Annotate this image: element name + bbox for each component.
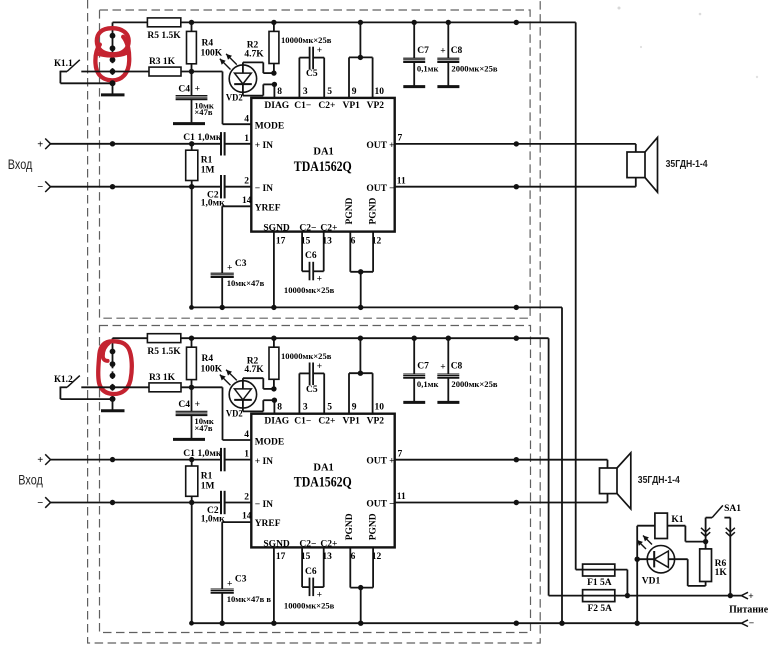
pin number 14 (ch2) (242, 512, 252, 522)
labels C6 (ch2) (284, 567, 335, 611)
svg-text:DA1: DA1 (313, 462, 333, 473)
svg-text:+: + (195, 84, 200, 94)
label C2 1,0мк (ch2) (201, 506, 225, 524)
svg-text:R4: R4 (202, 354, 214, 364)
svg-text:DIAG: DIAG (264, 417, 289, 427)
svg-text:К1.1: К1.1 (54, 59, 73, 69)
svg-text:PGND: PGND (368, 513, 378, 540)
svg-text:4: 4 (244, 430, 249, 440)
junction dot K1/SA1/R6 node (703, 539, 708, 544)
resistor R5 1.5K (ch2) (147, 334, 181, 357)
svg-text:Питание: Питание (729, 604, 769, 615)
switch SA1 (701, 504, 741, 596)
wire: ch1 +rail drop to fuse F1 (576, 22, 583, 569)
wire: VD2 cathode to DIAG pin 8 (ch2) (243, 400, 275, 411)
ground bar under C4 (ch2) (173, 438, 205, 441)
svg-text:− IN: − IN (255, 184, 273, 194)
junction dot R4/R3/C4 node (ch1) (189, 69, 194, 74)
svg-text:C4: C4 (178, 84, 190, 94)
wire: R1 down to signal-ground rail (ch1) (191, 187, 193, 308)
svg-text:100K: 100K (201, 49, 223, 59)
wire: K1 right lead to SA1/R6 node (667, 526, 705, 542)
svg-text:C1−: C1− (294, 417, 311, 427)
pin numbers 9 and 10 (ch2) (352, 403, 384, 413)
input label Вход (ch2) (18, 472, 43, 488)
svg-text:12: 12 (372, 236, 382, 246)
svg-text:+: + (317, 590, 322, 600)
svg-text:VD2: VD2 (226, 410, 243, 420)
svg-text:100K: 100K (201, 364, 223, 374)
svg-text:5: 5 (327, 87, 332, 97)
channel 2 dashed module box (100, 326, 531, 633)
svg-text:+: + (37, 139, 43, 150)
labels C6 (ch1) (284, 251, 335, 295)
fuse F2 5A (583, 590, 615, 614)
pin number 2 (ch1) (244, 177, 249, 187)
wire: R1 down to signal-ground rail (ch2) (191, 503, 193, 624)
svg-text:1,0мк: 1,0мк (198, 133, 222, 143)
svg-text:+: + (440, 362, 445, 372)
relay contact K1.1 switch (60, 60, 149, 84)
junction dots on −input wire (ch2) (110, 500, 195, 505)
svg-text:− IN: − IN (255, 500, 273, 510)
junction dots on top rail channel 2 (189, 336, 519, 341)
svg-text:R3 1K: R3 1K (149, 57, 176, 67)
svg-text:Вход: Вход (8, 156, 33, 172)
svg-text:15: 15 (301, 552, 311, 562)
input + terminal arrow (ch1) (37, 139, 50, 151)
svg-text:1M: 1M (201, 482, 215, 492)
capacitor C5 10000uF (ch2) (299, 363, 324, 414)
labels inside DA1 (ch2) (255, 417, 395, 550)
bar terminal under C8 (ch1) (437, 85, 459, 88)
svg-text:4.7K: 4.7K (244, 49, 264, 59)
junction dots on OUT wires (ch1) (514, 141, 519, 189)
svg-text:35ГДН-1-4: 35ГДН-1-4 (638, 475, 680, 486)
svg-text:PGND: PGND (345, 513, 355, 540)
svg-text:C1−: C1− (294, 101, 311, 111)
pin numbers 15 and 13 (ch1) (301, 236, 332, 246)
bar terminal under C7 (ch2) (403, 401, 425, 404)
svg-text:DIAG: DIAG (264, 101, 289, 111)
svg-text:8: 8 (277, 403, 282, 413)
junction dot VP bracket (ch1) (358, 55, 363, 60)
wire: R3 to MODE corner (ch1) (181, 72, 251, 125)
svg-text:1: 1 (244, 450, 249, 460)
svg-text:C7: C7 (417, 362, 429, 372)
labels C8 (ch2) (440, 362, 498, 390)
resistor R2 4.7K (ch1) (244, 22, 279, 73)
capacitor C4 10uF (ch1) (176, 72, 208, 123)
wire: signal ground rail (ch1) (191, 307, 562, 623)
junction dots on OUT wires (ch2) (514, 457, 519, 505)
svg-text:×47в: ×47в (194, 423, 212, 433)
relay contact K1.2 switch (60, 376, 149, 400)
pin 11 OUT− wire (ch1) (395, 176, 636, 186)
pins 6/12 PGND bracket and riser (ch1) (350, 232, 373, 308)
svg-text:+: + (317, 275, 322, 285)
resistor R5 1.5K (ch1) (147, 18, 181, 41)
svg-text:−: − (749, 619, 754, 629)
input resistor R1 1M (ch2) (186, 460, 215, 503)
labels C7 (ch1) (417, 46, 439, 74)
label C1 1,0мк (ch2) (183, 449, 222, 459)
connector X2 contact column (pins circled in red) (110, 338, 116, 402)
wire: VP1/VP2 bracket to +rail (ch1) (349, 22, 373, 98)
wire: F1 output down to + wire (626, 570, 628, 596)
svg-text:C5: C5 (306, 69, 318, 79)
label VD2 (ch2) (226, 410, 243, 420)
capacitor C7 0,1мк (ch2) (403, 338, 425, 401)
svg-text:VP2: VP2 (367, 417, 385, 427)
input − terminal arrow (ch2) (37, 497, 50, 509)
labels C5 (ch2) (281, 351, 332, 395)
svg-text:OUT +: OUT + (366, 457, 394, 467)
LED VD2 (ch1) (229, 62, 256, 95)
channel 1 dashed module box (100, 10, 531, 318)
pin 11 OUT− wire (ch2) (395, 492, 608, 502)
pin number 4 MODE (ch2) (244, 430, 249, 440)
ground (chassis bar) below K1.2 (101, 399, 125, 411)
svg-text:5: 5 (327, 403, 332, 413)
wire: +supply top rail channel 2 (113, 337, 549, 339)
LED VD1 emission arrows (637, 536, 652, 550)
svg-text:13: 13 (322, 236, 332, 246)
input coupling capacitor C2 1.0uF (ch2) (51, 491, 252, 514)
pin number 14 (ch1) (242, 196, 252, 206)
svg-text:×47в: ×47в (194, 107, 212, 117)
junction dot VP bracket (ch2) (358, 371, 363, 376)
svg-text:7: 7 (398, 449, 403, 459)
input − terminal arrow (ch1) (37, 181, 50, 193)
svg-text:8: 8 (277, 87, 282, 97)
junction dot R4/R3/C4 node (ch2) (189, 385, 194, 390)
svg-text:PGND: PGND (345, 197, 355, 224)
svg-text:2000мк×25в: 2000мк×25в (451, 379, 497, 389)
svg-text:+: + (37, 455, 43, 466)
resistor R4 100K (ch2) (187, 338, 223, 387)
svg-text:10: 10 (375, 403, 385, 413)
svg-text:6: 6 (351, 552, 356, 562)
svg-text:YREF: YREF (255, 203, 281, 213)
wire: K1 left lead to ground branch (637, 525, 655, 527)
svg-text:K1: K1 (671, 515, 683, 525)
svg-text:+: + (227, 264, 232, 274)
svg-text:C7: C7 (417, 46, 429, 56)
junction dots on ground rail (ch2) (189, 621, 519, 626)
op-amp IC DA1 TDA1562Q body (ch2) (251, 414, 394, 548)
svg-text:11: 11 (397, 176, 406, 186)
svg-text:PGND: PGND (368, 197, 378, 224)
svg-text:F2 5A: F2 5A (588, 604, 613, 614)
svg-text:F1 5A: F1 5A (587, 578, 612, 588)
pin 8 stub DIAG (ch1) (274, 84, 282, 98)
input coupling capacitor C1 1.0uF (ch1) (51, 132, 252, 155)
svg-text:9: 9 (352, 87, 357, 97)
wire: + supply wire to terminal (615, 595, 742, 597)
pin number 1 (ch2) (244, 450, 249, 460)
junction dots on − wire (559, 621, 640, 626)
svg-text:−: − (37, 498, 43, 509)
svg-text:R5 1.5K: R5 1.5K (147, 347, 181, 357)
scanner noise specks top right (618, 7, 759, 79)
wire: VP1/VP2 bracket to +rail (ch2) (349, 338, 373, 414)
pin 7 OUT+ wire (ch2) (395, 449, 608, 459)
junction dot DIAG node (ch2) (272, 398, 277, 403)
svg-text:2000мк×25в: 2000мк×25в (451, 63, 497, 73)
svg-text:4.7K: 4.7K (244, 365, 264, 375)
svg-text:C8: C8 (451, 362, 463, 372)
svg-text:1M: 1M (201, 166, 215, 176)
svg-text:+: + (317, 362, 322, 372)
loudspeaker BA1 35ГДН-1-4 (ch1) (627, 137, 658, 192)
svg-text:14: 14 (242, 196, 252, 206)
svg-text:+ IN: + IN (255, 457, 273, 467)
svg-text:+ IN: + IN (255, 141, 273, 151)
svg-text:17: 17 (276, 552, 286, 562)
pin 14 YREF wire and capacitor C3 (ch2) (211, 522, 252, 623)
label VD2 (ch1) (226, 94, 243, 104)
input resistor R1 1M (ch1) (186, 144, 215, 187)
svg-text:C6: C6 (305, 567, 317, 577)
relay contact K1.2 label (54, 375, 73, 385)
capacitor C8 2000мк (ch1) (437, 22, 459, 85)
pin number 2 (ch2) (244, 492, 249, 502)
resistor R4 100K (ch1) (187, 22, 223, 71)
svg-text:1,0мк: 1,0мк (198, 449, 222, 459)
loudspeaker BA2 35ГДН-1-4 (ch2) (600, 453, 631, 509)
junction dot PGND bracket (ch1) (358, 269, 363, 274)
svg-text:VP1: VP1 (343, 417, 361, 427)
junction dot R2/VD2 (ch1) (271, 70, 276, 75)
svg-text:−: − (37, 182, 43, 193)
resistor R6 1K (700, 542, 728, 586)
svg-text:+: + (317, 46, 322, 56)
svg-text:17: 17 (276, 236, 286, 246)
wire: R3 to MODE corner (ch2) (181, 387, 251, 440)
power + terminal arrow (741, 592, 753, 602)
svg-text:TDA1562Q: TDA1562Q (294, 159, 352, 175)
wire: VD1 to R6 bottom (688, 559, 706, 586)
svg-text:Вход: Вход (18, 472, 43, 488)
svg-text:C3: C3 (235, 259, 247, 269)
svg-text:MODE: MODE (255, 437, 285, 447)
wire: VD2 anode to R2 (ch2) (243, 378, 274, 389)
svg-text:C4: C4 (178, 400, 190, 410)
capacitor C4 10uF (ch2) (176, 387, 208, 438)
pin numbers 3 and 5 (ch1) (303, 87, 332, 97)
pin numbers 3 and 5 (ch2) (303, 403, 332, 413)
wire: VD2 anode to R2 (ch1) (243, 62, 274, 73)
op-amp IC DA1 TDA1562Q body (ch1) (251, 98, 394, 232)
svg-text:10000мк×25в: 10000мк×25в (284, 285, 335, 295)
pin number 1 (ch1) (244, 134, 249, 144)
pin numbers 9 and 10 (ch1) (352, 87, 384, 97)
svg-text:7: 7 (398, 134, 403, 144)
label C4 + (ch1) (178, 84, 213, 117)
capacitor C6 10000uF on pins 15/13 (ch2) (302, 547, 324, 596)
pins 6/12 PGND bracket and riser (ch2) (350, 547, 373, 623)
power − terminal arrow (741, 619, 754, 629)
input coupling capacitor C2 1.0uF (ch1) (51, 175, 252, 198)
svg-text:2: 2 (244, 492, 249, 502)
loudspeaker label 35ГДН-1-4 (ch2) (638, 475, 680, 486)
resistor R3 1K (ch2) (149, 373, 181, 392)
label C1 1,0мк (ch1) (183, 133, 222, 143)
red hand-drawn highlight around connector X2 (98, 341, 132, 394)
svg-text:OUT −: OUT − (366, 500, 394, 510)
pin 17 SGND stub (ch1) (274, 232, 286, 308)
labels C7 (ch2) (417, 362, 439, 390)
wire: +supply top rail channel 1 (113, 21, 576, 23)
svg-text:35ГДН-1-4: 35ГДН-1-4 (666, 159, 708, 170)
resistor R2 4.7K (ch2) (244, 338, 279, 389)
relay coil K1 (655, 513, 684, 538)
input + terminal arrow (ch2) (37, 454, 50, 466)
junction dot PGND bracket (ch2) (358, 585, 363, 590)
svg-text:C1: C1 (183, 133, 195, 143)
svg-text:+: + (440, 47, 445, 57)
svg-text:SGND: SGND (263, 540, 290, 550)
wire: signal ground rail (ch2) (191, 622, 741, 624)
labels C5 (ch1) (281, 35, 332, 79)
pin numbers 6 and 12 (ch2) (351, 552, 382, 562)
svg-text:C8: C8 (451, 46, 463, 56)
svg-text:OUT −: OUT − (366, 184, 394, 194)
fuse F1 5A (583, 564, 628, 588)
svg-text:TDA1562Q: TDA1562Q (294, 475, 352, 491)
junction dot K1.2 ground wire (110, 396, 116, 402)
svg-text:10мк×47в: 10мк×47в (227, 278, 265, 288)
labels C3 (ch2) (227, 575, 272, 604)
wire: ground branch through VD1/K1 node (636, 526, 638, 624)
svg-text:10мк×47в в: 10мк×47в в (227, 594, 272, 604)
outer dashed enclosure border (88, 0, 541, 643)
svg-text:+: + (227, 579, 232, 589)
svg-text:DA1: DA1 (313, 147, 333, 158)
junction dot DIAG node (ch1) (272, 82, 277, 87)
svg-text:OUT +: OUT + (366, 141, 394, 151)
svg-text:1: 1 (244, 134, 249, 144)
labels C8 (ch1) (440, 46, 498, 74)
svg-text:R5 1.5K: R5 1.5K (147, 31, 181, 41)
junction dot R2/VD2 (ch2) (271, 386, 276, 391)
labels C3 (ch1) (227, 259, 265, 288)
svg-text:15: 15 (301, 236, 311, 246)
wire: ch2 +rail drop to fuse F2 (549, 338, 583, 595)
svg-text:R3 1K: R3 1K (149, 373, 176, 383)
svg-text:VD2: VD2 (226, 94, 243, 104)
svg-text:C1: C1 (183, 449, 195, 459)
svg-text:9: 9 (352, 403, 357, 413)
svg-text:11: 11 (397, 492, 406, 502)
input label Вход (ch1) (8, 156, 33, 172)
svg-text:К1.2: К1.2 (54, 375, 73, 385)
svg-text:C2+: C2+ (318, 101, 335, 111)
svg-text:VD1: VD1 (642, 576, 661, 586)
pin 17 SGND stub (ch2) (274, 547, 286, 623)
svg-text:R4: R4 (202, 38, 214, 48)
label VD1 (642, 576, 661, 586)
junction dots on +input wire (ch2) (110, 457, 195, 462)
junction dot SA1 branch on + wire (728, 593, 733, 598)
svg-text:10000мк×25в: 10000мк×25в (281, 35, 332, 45)
svg-text:SGND: SGND (263, 224, 290, 234)
LED VD2 emission arrows (ch1) (220, 54, 237, 70)
junction dots on top rail channel 1 (189, 20, 519, 25)
svg-text:VP2: VP2 (367, 101, 385, 111)
capacitor C6 10000uF on pins 15/13 (ch1) (302, 232, 324, 281)
svg-text:SA1: SA1 (724, 504, 741, 514)
svg-text:10000мк×25в: 10000мк×25в (284, 601, 335, 611)
bar terminal under C7 (ch1) (403, 85, 425, 88)
svg-text:R1: R1 (201, 472, 213, 482)
svg-text:+: + (748, 592, 753, 602)
capacitor C7 0,1мк (ch1) (403, 22, 425, 85)
pin 8 stub DIAG (ch2) (274, 400, 282, 414)
capacitor C8 2000мк (ch2) (437, 338, 459, 401)
svg-text:13: 13 (322, 552, 332, 562)
pin numbers 15 and 13 (ch2) (301, 552, 332, 562)
label C2 1,0мк (ch1) (201, 190, 225, 208)
svg-text:C2+: C2+ (318, 417, 335, 427)
pin 14 YREF wire and capacitor C3 (ch1) (211, 206, 252, 307)
svg-text:C5: C5 (306, 385, 318, 395)
svg-text:0,1мк: 0,1мк (417, 63, 439, 73)
svg-text:3: 3 (303, 87, 308, 97)
loudspeaker label 35ГДН-1-4 (ch1) (666, 159, 708, 170)
LED VD1 (637, 546, 688, 573)
svg-text:12: 12 (372, 552, 382, 562)
svg-text:YREF: YREF (255, 519, 281, 529)
pin numbers 6 and 12 (ch1) (351, 236, 382, 246)
svg-text:2: 2 (244, 177, 249, 187)
relay contact K1.1 label (54, 59, 73, 69)
svg-text:VP1: VP1 (343, 101, 361, 111)
red hand-drawn highlight around connector X1 (95, 28, 129, 80)
LED VD2 emission arrows (ch2) (220, 370, 237, 386)
svg-text:10: 10 (375, 87, 385, 97)
bar terminal under C8 (ch2) (437, 401, 459, 404)
power label Питание (729, 604, 769, 615)
capacitor C5 10000uF (ch1) (299, 47, 324, 98)
svg-text:4: 4 (244, 114, 249, 124)
svg-text:14: 14 (242, 512, 252, 522)
junction dot F1/+wire (625, 593, 630, 598)
input coupling capacitor C1 1.0uF (ch2) (51, 448, 252, 471)
svg-text:C3: C3 (235, 575, 247, 585)
pin number 4 MODE (ch1) (244, 114, 249, 124)
svg-text:C6: C6 (305, 251, 317, 261)
pin 7 OUT+ wire (ch1) (395, 134, 636, 144)
svg-text:3: 3 (303, 403, 308, 413)
svg-text:10000мк×25в: 10000мк×25в (281, 351, 332, 361)
junction dot K1.1 ground wire (110, 80, 116, 86)
svg-text:6: 6 (351, 236, 356, 246)
junction dots on −input wire (ch1) (110, 184, 195, 189)
labels inside DA1 (ch1) (255, 101, 395, 234)
wire: VD2 cathode to DIAG pin 8 (ch1) (243, 84, 275, 95)
svg-text:MODE: MODE (255, 122, 285, 132)
ground (chassis bar) below K1.1 (101, 83, 125, 95)
junction dot VD1 anode/ground branch (635, 557, 640, 562)
ground bar under C4 (ch1) (173, 122, 205, 125)
junction dots on ground rail (ch1) (189, 305, 519, 310)
resistor R3 1K (ch1) (149, 57, 181, 76)
LED VD2 (ch2) (229, 378, 256, 411)
label C4 + (ch2) (178, 400, 213, 433)
svg-text:+: + (195, 400, 200, 410)
